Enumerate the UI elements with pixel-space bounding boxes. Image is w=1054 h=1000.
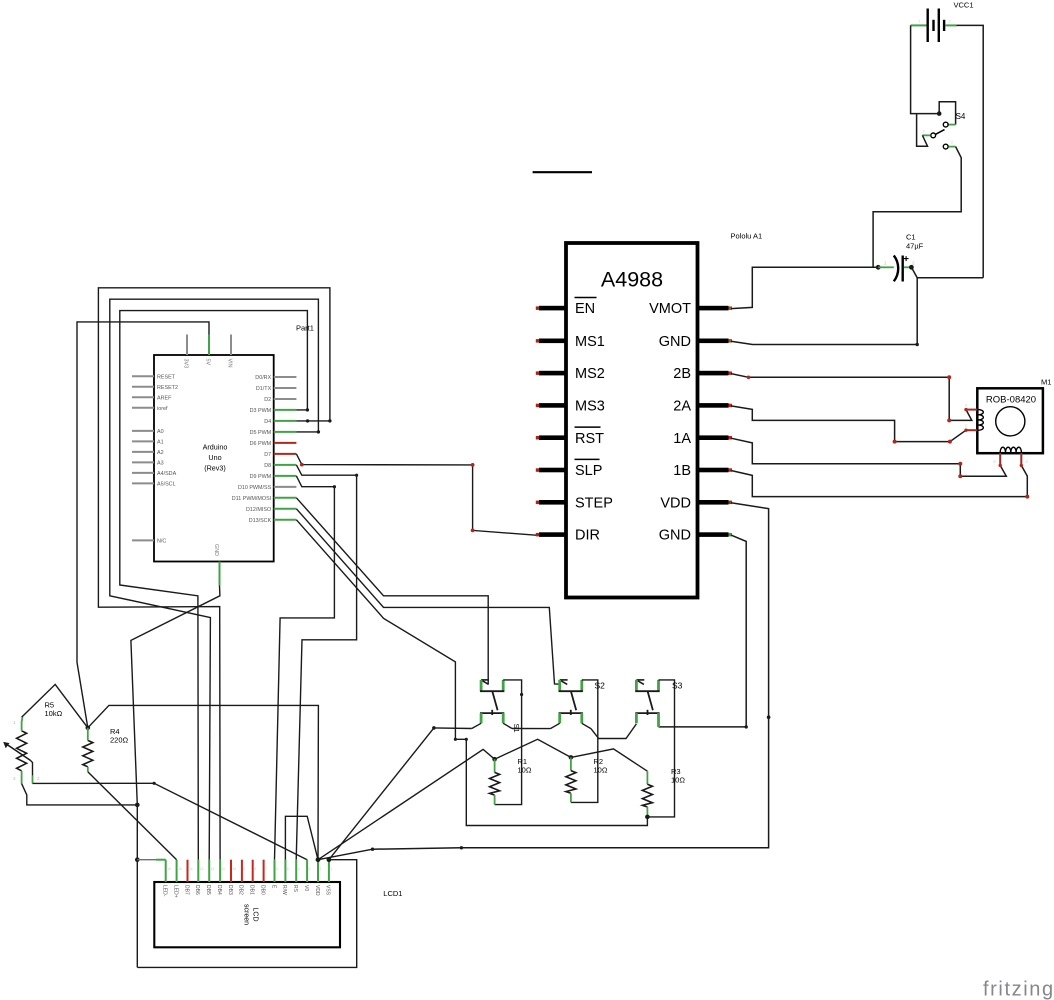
node 5V/R4 junction dot bbox=[86, 726, 91, 731]
wire junction to LCD VDD rail bbox=[88, 705, 319, 859]
C1 straight positive plate bbox=[902, 256, 904, 282]
svg-text:GND: GND bbox=[213, 544, 219, 556]
pin VMOT stub bbox=[698, 306, 729, 311]
pin D11 stub (green) bbox=[274, 497, 297, 499]
svg-text:DB2: DB2 bbox=[238, 885, 244, 895]
node LCD VSS junction dot bbox=[327, 857, 332, 862]
pin VDD stub bbox=[698, 500, 729, 505]
svg-text:DB3: DB3 bbox=[227, 885, 233, 895]
pin RST terminal bbox=[536, 436, 540, 440]
wire buttons common to LCD VSS (long diagonal) bbox=[329, 728, 434, 860]
SECTION: left nets bbox=[77, 288, 647, 968]
wire S1-S2 segment bbox=[512, 728, 550, 730]
svg-text:10kΩ: 10kΩ bbox=[45, 709, 63, 718]
S4 pin 3 terminal circle bbox=[943, 144, 948, 149]
pin D9 stub (green) bbox=[274, 475, 297, 477]
svg-text:AREF: AREF bbox=[157, 395, 172, 401]
svg-text:D11 PWM/MOSI: D11 PWM/MOSI bbox=[232, 496, 271, 502]
svg-text:SLP: SLP bbox=[575, 463, 602, 479]
S3 bottom green contacts bbox=[635, 713, 638, 723]
C1 plus sign bbox=[904, 256, 909, 261]
svg-text:VMOT: VMOT bbox=[649, 301, 691, 317]
svg-text:VSS: VSS bbox=[325, 885, 331, 896]
motor lead end dots (red) bbox=[964, 408, 967, 411]
SECTION: misc bbox=[533, 172, 1054, 1000]
svg-text:MS3: MS3 bbox=[575, 399, 605, 415]
node D13 stub dots bbox=[454, 738, 457, 741]
pin GND1 stub bbox=[698, 339, 729, 344]
pin 2B terminal bbox=[729, 371, 733, 375]
pin EN stub bbox=[539, 306, 566, 311]
node GND1 corner dot bbox=[916, 343, 919, 346]
svg-text:6: 6 bbox=[276, 867, 278, 871]
R2 top lead (green) bbox=[570, 757, 572, 770]
svg-text:14: 14 bbox=[189, 867, 193, 871]
pin SLP stub bbox=[539, 468, 566, 473]
node D3 bend dot bbox=[306, 408, 309, 411]
wire 2B to motor pin A bbox=[731, 374, 972, 421]
pin 2B stub bbox=[698, 371, 729, 376]
node C1 right junction bbox=[909, 265, 914, 270]
svg-text:Part1: Part1 bbox=[296, 324, 314, 333]
node VDD bendpoints bbox=[767, 715, 771, 719]
svg-text:D4: D4 bbox=[264, 419, 271, 425]
wire R2-R3 tent bbox=[571, 749, 648, 771]
svg-text:9: 9 bbox=[243, 867, 245, 871]
S4 pin 1 terminal circle bbox=[943, 122, 948, 127]
svg-text:LED+: LED+ bbox=[172, 885, 178, 898]
S3 top bar bbox=[635, 690, 659, 692]
wire R5 wiper to LCD V0 bbox=[33, 783, 308, 859]
pin 1A terminal bbox=[729, 436, 733, 440]
wire D8 to LCD RS bbox=[296, 465, 356, 860]
node battery/S4 junction bbox=[937, 111, 942, 116]
wire VDD dot to R1 tent bbox=[318, 749, 495, 859]
node DIR bendpoints (red) bbox=[471, 463, 475, 467]
pushbutton S1 bbox=[472, 680, 523, 805]
svg-text:15: 15 bbox=[178, 867, 182, 871]
node D5 bend dot bbox=[317, 430, 320, 433]
svg-text:A5/SCL: A5/SCL bbox=[157, 481, 176, 487]
R3 top lead (green) bbox=[646, 771, 648, 784]
wire R/W staircase to VDD dot bbox=[285, 816, 318, 859]
S1 top green contacts bbox=[480, 680, 483, 691]
pin D7 stub (red) bbox=[274, 453, 297, 455]
wire right rail bottom to C1 corner bbox=[917, 277, 983, 279]
SECTION: capacitor C1 bbox=[876, 233, 924, 345]
S1 top bar bbox=[480, 690, 504, 692]
pin DB6 lead bbox=[197, 860, 199, 882]
pin LED- lead bbox=[165, 860, 167, 882]
R3 zigzag body bbox=[642, 784, 652, 807]
svg-text:A0: A0 bbox=[157, 429, 164, 435]
pin A2 stub bbox=[132, 451, 154, 453]
Arduino Uno body Part1 bbox=[154, 355, 274, 562]
svg-text:10: 10 bbox=[233, 867, 237, 871]
S1 actuator bbox=[492, 691, 497, 710]
svg-text:STEP: STEP bbox=[575, 495, 613, 511]
svg-text:5: 5 bbox=[287, 867, 289, 871]
svg-text:D5 PWM: D5 PWM bbox=[250, 430, 272, 436]
potentiometer R5 zigzag body bbox=[17, 731, 27, 771]
svg-text:DB4: DB4 bbox=[216, 885, 222, 895]
svg-text:D6 PWM: D6 PWM bbox=[250, 441, 272, 447]
wire D7 to A4988 DIR bbox=[296, 454, 536, 535]
node wiper bend dot bbox=[153, 782, 156, 785]
svg-text:16: 16 bbox=[167, 867, 171, 871]
S2 top green contacts bbox=[558, 680, 561, 691]
S1 bottom green contacts bbox=[480, 713, 483, 723]
SECTION: switch S4 bbox=[873, 102, 966, 268]
pin 1A stub bbox=[698, 435, 729, 440]
pin D1/TX stub bbox=[274, 387, 297, 389]
SECTION: buttons bbox=[318, 680, 685, 860]
wire S4 pin2 Z-bend to junction rail bbox=[917, 114, 928, 147]
pin DB4 lead bbox=[219, 860, 221, 882]
node D4 bend dot bbox=[328, 419, 331, 422]
pin MS3 stub bbox=[539, 403, 566, 408]
svg-text:VDD: VDD bbox=[314, 885, 320, 896]
svg-text:D12/MISO: D12/MISO bbox=[246, 507, 271, 513]
R5 wiper arrow bbox=[7, 745, 30, 761]
R4 top lead (green) bbox=[87, 728, 89, 741]
S3 bottom bar with tick bbox=[647, 710, 649, 715]
svg-text:10Ω: 10Ω bbox=[518, 766, 532, 775]
S3 top-right lead to R3 junction bbox=[647, 680, 674, 817]
node GND/LED- junction dot bbox=[135, 857, 140, 862]
SECTION: arduino bbox=[132, 324, 314, 586]
pin DB3 lead (red) bbox=[230, 860, 232, 882]
right pins stubs bbox=[274, 377, 297, 520]
svg-text:D10 PWM/SS: D10 PWM/SS bbox=[238, 485, 272, 491]
svg-text:RESET2: RESET2 bbox=[157, 385, 178, 391]
R1 zigzag body bbox=[490, 772, 500, 795]
node R1 top junction bbox=[492, 757, 497, 762]
S3 entry zigzag bbox=[637, 680, 644, 684]
pin ioref stub bbox=[132, 407, 154, 409]
wire VMOT to C1 junction bbox=[731, 267, 878, 308]
svg-text:VCC1: VCC1 bbox=[954, 1, 974, 10]
svg-text:RS: RS bbox=[292, 885, 298, 893]
pin MS1 terminal bbox=[536, 339, 540, 343]
SECTION: battery bbox=[911, 1, 984, 278]
svg-text:C1: C1 bbox=[906, 233, 916, 242]
wire 5V rail to pot/R4 junction bbox=[77, 322, 209, 728]
motor bottom-right pin lead (red) bbox=[1020, 453, 1022, 466]
wire GND1 to C1 right corner bbox=[731, 341, 917, 344]
svg-text:2A: 2A bbox=[673, 399, 691, 415]
SECTION: pot and R4 bbox=[3, 684, 318, 859]
A4988 chip body U1 bbox=[566, 243, 698, 598]
svg-text:M1: M1 bbox=[1041, 378, 1051, 387]
svg-text:2B: 2B bbox=[673, 366, 691, 382]
pin D5 stub (green) bbox=[274, 431, 297, 433]
pin 5V stub (green) bbox=[208, 335, 210, 356]
svg-text:A2: A2 bbox=[157, 450, 164, 456]
motor bottom-left pin lead (red) bbox=[999, 453, 1001, 466]
node R3 bottom junction bbox=[645, 815, 650, 820]
wire S2-S3 bathtub segment bbox=[591, 724, 637, 739]
svg-text:EN: EN bbox=[575, 301, 595, 317]
node S1-left bend dot bbox=[432, 726, 436, 730]
svg-text:3V3: 3V3 bbox=[183, 359, 189, 369]
S4 pin 3 lead (green) bbox=[949, 146, 956, 148]
S2 top-left cap bbox=[560, 679, 568, 681]
svg-text:GND: GND bbox=[659, 528, 691, 544]
node 1A bendpoints (red) bbox=[958, 462, 962, 466]
pin DIR terminal bbox=[536, 533, 540, 537]
svg-text:7: 7 bbox=[265, 867, 267, 871]
svg-text:D0/RX: D0/RX bbox=[255, 375, 271, 381]
svg-text:A3: A3 bbox=[157, 460, 164, 466]
motor pin C lead (red) bbox=[966, 429, 977, 431]
R4 bottom lead (green) bbox=[87, 767, 89, 772]
node C1 left junction bbox=[876, 265, 881, 270]
svg-text:10Ω: 10Ω bbox=[671, 776, 685, 785]
node 2A bendpoints (red) bbox=[893, 440, 897, 444]
pin DB5 lead bbox=[208, 860, 210, 882]
pin D2 stub bbox=[274, 398, 297, 400]
node 1B bendpoint (red) bbox=[1025, 495, 1029, 499]
pin GND2 stub bbox=[698, 532, 729, 537]
SECTION: A4988 bbox=[536, 232, 762, 598]
pin V0 lead bbox=[306, 860, 308, 882]
pin DB2 lead (red) bbox=[241, 860, 243, 882]
pin D6 stub (red) bbox=[274, 442, 297, 444]
S2 top-right lead to R2 bbox=[571, 680, 598, 803]
svg-text:V0: V0 bbox=[303, 885, 309, 891]
pushbutton S3 bbox=[635, 680, 682, 817]
svg-text:D3 PWM: D3 PWM bbox=[250, 408, 272, 414]
pin DB1 lead (red) bbox=[252, 860, 254, 882]
svg-text:1A: 1A bbox=[673, 431, 691, 447]
svg-text:GND: GND bbox=[659, 334, 691, 350]
right pin labels bbox=[232, 375, 272, 524]
wire Arduino GND to pot/LCD ground bbox=[131, 585, 220, 967]
svg-text:12: 12 bbox=[211, 867, 215, 871]
SECTION: motor bbox=[964, 378, 1051, 468]
node LCD VDD junction dot bbox=[316, 857, 321, 862]
pin D13 stub (green) bbox=[274, 519, 297, 521]
svg-text:2: 2 bbox=[320, 867, 322, 871]
pin MS2 terminal bbox=[536, 371, 540, 375]
battery VCC1 plates bbox=[927, 9, 929, 43]
motor pin A lead (red) bbox=[966, 409, 977, 411]
S2 top bar bbox=[559, 690, 583, 692]
pin D8 stub (green) bbox=[274, 464, 297, 466]
node GND2/S3 corner dot bbox=[745, 725, 748, 728]
resistor R1 bbox=[490, 757, 532, 805]
R2 bottom lead (green) bbox=[570, 793, 572, 802]
pin DIR stub bbox=[539, 532, 566, 537]
svg-text:DB5: DB5 bbox=[205, 885, 211, 895]
svg-text:Arduino: Arduino bbox=[203, 443, 228, 452]
svg-text:MS1: MS1 bbox=[575, 334, 605, 350]
svg-text:ROB-08420: ROB-08420 bbox=[986, 395, 1036, 406]
pin RESET2 stub bbox=[132, 386, 154, 388]
left pins gray stubs bbox=[132, 376, 154, 540]
pin STEP terminal bbox=[536, 501, 540, 505]
svg-text:Uno: Uno bbox=[208, 453, 221, 462]
pin STEP stub bbox=[539, 500, 566, 505]
motor bottom coil bbox=[1000, 447, 1021, 453]
wire C1 right to GND net corner bbox=[911, 267, 917, 344]
node GND/pot junction dot bbox=[135, 803, 140, 808]
resistor R3 bbox=[642, 767, 685, 819]
svg-text:D9 PWM: D9 PWM bbox=[250, 474, 272, 480]
pin EN terminal bbox=[536, 306, 540, 310]
wire D13 to R3 loop bbox=[296, 520, 647, 826]
wire D11 to button S1 bbox=[296, 498, 488, 685]
S1 bottom flares bbox=[472, 723, 481, 728]
svg-text:A4/SDA: A4/SDA bbox=[157, 471, 177, 477]
pushbutton S2 bbox=[550, 680, 605, 803]
wire GND junction to LCD LED- bbox=[137, 859, 156, 861]
svg-text:D13/SCK: D13/SCK bbox=[249, 518, 272, 524]
wire R1-R2 tent bbox=[495, 739, 571, 759]
pin SLP terminal bbox=[536, 468, 540, 472]
svg-text:D1/TX: D1/TX bbox=[256, 386, 272, 392]
svg-text:N/C: N/C bbox=[157, 538, 166, 544]
svg-text:DIR: DIR bbox=[575, 528, 600, 544]
S3 top green contacts bbox=[635, 680, 638, 691]
C1 pin 2 lead (green) bbox=[904, 266, 910, 268]
pin VIN stub (gray) bbox=[230, 335, 232, 356]
LCD pin labels (rotated) bbox=[162, 885, 331, 898]
svg-text:RST: RST bbox=[575, 431, 604, 447]
wire junction to S4 pin 1 bbox=[939, 102, 955, 125]
pin A5/SCL stub bbox=[132, 482, 154, 484]
S2 bottom bar with tick bbox=[570, 710, 572, 715]
motor M1 body bbox=[977, 388, 1043, 453]
pin VDD terminal bbox=[729, 501, 733, 505]
wire buttons common S1-left segment bbox=[434, 727, 472, 730]
S1 bottom bar with tick bbox=[491, 710, 493, 715]
SECTION: lcd bbox=[137, 816, 402, 967]
S2 actuator bbox=[571, 691, 576, 710]
resistor R2 bbox=[566, 755, 608, 802]
R5 pin3 lead bottom (green) bbox=[21, 771, 23, 784]
pin DB7 lead (red) bbox=[187, 860, 189, 882]
svg-text:D2: D2 bbox=[264, 397, 271, 403]
svg-text:5V: 5V bbox=[205, 359, 211, 366]
svg-text:MS2: MS2 bbox=[575, 366, 605, 382]
pin 3V3 stub (gray) bbox=[186, 335, 188, 356]
wire stray segment top middle bbox=[533, 171, 592, 173]
svg-text:1B: 1B bbox=[673, 463, 691, 479]
svg-text:S2: S2 bbox=[595, 681, 606, 691]
pin 1B stub bbox=[698, 468, 729, 473]
svg-text:R/W: R/W bbox=[281, 885, 287, 895]
pin D10 stub bbox=[274, 486, 297, 488]
svg-text:DB0: DB0 bbox=[259, 885, 265, 895]
left pin labels bbox=[157, 374, 178, 544]
pin A3 stub bbox=[132, 461, 154, 463]
C1 pin 1 lead (green) bbox=[878, 266, 894, 268]
wire VSS ground loop around LCD bbox=[137, 860, 356, 968]
pin 2A terminal bbox=[729, 404, 733, 408]
svg-text:VIN: VIN bbox=[227, 359, 233, 368]
wire D3 loop to LCD DB6 bbox=[120, 311, 308, 860]
svg-text:13: 13 bbox=[200, 867, 204, 871]
pin D4 stub (green) bbox=[274, 420, 297, 422]
svg-text:3: 3 bbox=[309, 867, 311, 871]
svg-text:10Ω: 10Ω bbox=[594, 766, 608, 775]
R5 wiper lead (dark+green) bbox=[30, 760, 32, 775]
wire battery- down to S4 bbox=[911, 25, 940, 113]
wire VDD down to LCD area bbox=[318, 503, 769, 860]
S1 top-right lead to R1 bbox=[495, 680, 522, 805]
svg-text:DB1: DB1 bbox=[249, 885, 255, 895]
svg-text:1: 1 bbox=[330, 867, 332, 871]
S2 bottom flares bbox=[550, 723, 559, 728]
pin A4/SDA stub bbox=[132, 472, 154, 474]
pin RST stub bbox=[539, 435, 566, 440]
svg-text:LED-: LED- bbox=[162, 885, 168, 897]
svg-text:4: 4 bbox=[298, 867, 300, 871]
pin 2A stub bbox=[698, 403, 729, 408]
S4 lever bbox=[936, 130, 945, 135]
wire D9 to LCD E bbox=[275, 476, 335, 860]
pin VDD lead bbox=[317, 860, 319, 882]
R2 zigzag body bbox=[566, 771, 576, 794]
S1 entry zigzag bbox=[482, 680, 489, 684]
pin R/W lead bbox=[284, 860, 286, 882]
SECTION: right nets bbox=[318, 267, 1029, 859]
svg-text:VDD: VDD bbox=[660, 495, 691, 511]
S2 bottom green contacts bbox=[558, 713, 561, 723]
pin D12 stub (green) bbox=[274, 508, 297, 510]
svg-text:11: 11 bbox=[222, 867, 226, 871]
svg-text:DB7: DB7 bbox=[183, 885, 189, 895]
svg-text:RESET: RESET bbox=[157, 374, 176, 380]
LCD screen body LCD1 bbox=[154, 882, 340, 947]
wire S4 pin3 down to C1 bbox=[873, 147, 961, 268]
pin VMOT terminal bbox=[729, 306, 733, 310]
pin MS3 terminal bbox=[536, 404, 540, 408]
LCD pin leads bbox=[166, 860, 329, 882]
S1 top-left cap bbox=[481, 679, 489, 681]
svg-text:LCD: LCD bbox=[252, 907, 259, 921]
node D7 junction dot (red) bbox=[300, 463, 304, 467]
pin D0/RX stub bbox=[274, 376, 297, 378]
S3 top-left cap bbox=[636, 679, 644, 681]
S4 pin 2 lead (green) bbox=[922, 134, 930, 136]
node R2 top junction bbox=[569, 755, 574, 760]
svg-text:(Rev3): (Rev3) bbox=[204, 464, 226, 473]
svg-text:8: 8 bbox=[254, 867, 256, 871]
svg-text:S4: S4 bbox=[956, 112, 966, 121]
R3 bottom lead (green) bbox=[646, 807, 648, 817]
pin MS2 stub bbox=[539, 371, 566, 376]
svg-text:ioref: ioref bbox=[157, 406, 168, 412]
S4 pin 2 terminal circle bbox=[931, 133, 936, 138]
pin N/C stub bbox=[132, 539, 154, 541]
wire D4 loop to LCD DB4 bbox=[98, 288, 330, 860]
pin GND2 terminal bbox=[729, 533, 733, 537]
pin GND stub bottom (green) bbox=[219, 562, 221, 586]
wire R5 top to 5V/R4 junction bbox=[22, 684, 88, 727]
pin LED+ lead bbox=[176, 860, 178, 882]
pin RS lead bbox=[295, 860, 297, 882]
svg-text:screen: screen bbox=[243, 904, 250, 925]
battery pin 1 lead (green) bbox=[911, 24, 927, 26]
wire D12 to button S2 bbox=[296, 509, 559, 684]
motor rotor circle bbox=[996, 407, 1025, 436]
node 2B bendpoints (red) bbox=[747, 376, 751, 380]
S4 pin 1 lead (green) bbox=[948, 124, 955, 126]
svg-text:Pololu A1: Pololu A1 bbox=[731, 232, 763, 241]
